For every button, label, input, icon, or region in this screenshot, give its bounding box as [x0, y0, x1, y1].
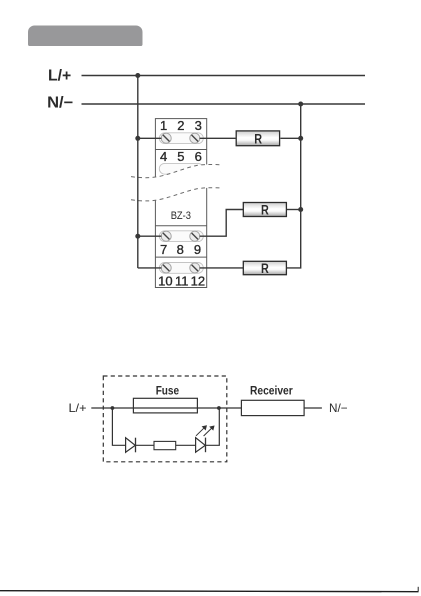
svg-text:BZ-3: BZ-3: [171, 210, 191, 222]
svg-text:7: 7: [160, 242, 167, 257]
svg-text:12: 12: [191, 274, 205, 289]
svg-text:R: R: [254, 131, 262, 147]
svg-text:5: 5: [177, 149, 184, 164]
svg-text:N/−: N/−: [47, 94, 73, 111]
svg-text:4: 4: [160, 149, 167, 164]
svg-text:3: 3: [195, 118, 202, 133]
svg-text:L/+: L/+: [69, 401, 87, 415]
svg-text:10: 10: [158, 274, 172, 289]
svg-text:9: 9: [194, 242, 201, 257]
svg-text:Fuse: Fuse: [156, 384, 180, 398]
svg-text:2: 2: [177, 118, 184, 133]
svg-text:11: 11: [175, 274, 189, 289]
svg-text:L/+: L/+: [48, 67, 71, 84]
svg-text:1: 1: [160, 118, 167, 133]
svg-text:8: 8: [177, 242, 184, 257]
svg-text:Receiver: Receiver: [250, 384, 293, 398]
svg-text:R: R: [261, 203, 269, 219]
svg-text:N/−: N/−: [329, 401, 348, 415]
svg-text:R: R: [261, 261, 269, 277]
svg-text:6: 6: [195, 149, 202, 164]
